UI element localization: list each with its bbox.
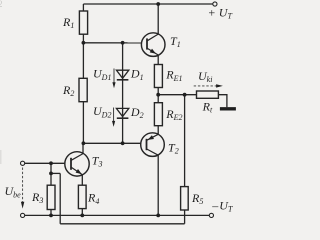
wire feedback bottom run	[60, 223, 184, 225]
svg-text:UT: UT	[219, 6, 233, 21]
svg-text:+: +	[208, 6, 216, 20]
svg-text:Rt: Rt	[202, 99, 213, 114]
svg-text:R1: R1	[62, 15, 74, 30]
wire T3 emitter through R4 to bottom rail	[81, 175, 83, 216]
svg-text:T1: T1	[170, 34, 181, 49]
wire output node to Rt	[158, 94, 196, 96]
transistor T3 (NPN)	[65, 152, 89, 176]
svg-text:T3: T3	[92, 153, 103, 168]
svg-text:R3: R3	[31, 190, 43, 205]
svg-text:UT: UT	[219, 198, 233, 213]
svg-text:D2: D2	[130, 105, 144, 120]
resistor R4	[78, 185, 86, 208]
junction feedback tap	[49, 172, 53, 176]
resistor R1	[79, 11, 87, 34]
svg-text:–: –	[211, 198, 219, 212]
junction R5 top / output wire	[183, 93, 187, 97]
junction R3 bottom rail	[49, 214, 53, 218]
wire input to T3 base	[25, 162, 65, 164]
resistor RE1	[154, 65, 162, 88]
junction T2 collector rail	[156, 214, 160, 218]
svg-text:Ube: Ube	[5, 184, 22, 199]
transistor T1 (NPN)	[141, 33, 165, 57]
svg-text:D1: D1	[130, 67, 144, 82]
ground symbol	[220, 107, 236, 110]
svg-text:UD1: UD1	[93, 67, 111, 82]
resistor Rt (load, horizontal)	[197, 91, 219, 98]
arrow U_D2 (down)	[112, 108, 115, 127]
junction diode bottom	[121, 141, 125, 145]
junction input / R3 top	[49, 161, 53, 165]
junction T1 collector / top rail	[156, 2, 160, 6]
wire Rt right lead to ground	[218, 95, 227, 108]
wire bottom rail -UT	[25, 214, 210, 216]
arrow U_ki (dashed, right)	[194, 84, 223, 87]
diode D1	[116, 70, 128, 80]
wire T1 collector to top rail	[157, 4, 159, 34]
wire T2 collector to bottom rail	[157, 155, 159, 215]
terminal input bottom	[21, 213, 25, 217]
svg-text:R2: R2	[62, 83, 74, 98]
wire node A to T1 base	[83, 42, 141, 44]
junction node B left	[82, 141, 86, 145]
wire R3 column	[50, 163, 52, 215]
svg-text:R4: R4	[87, 191, 99, 206]
svg-text:UD2: UD2	[93, 104, 111, 119]
wire node B to T2 base	[83, 142, 140, 144]
wire T3 collector to node B	[82, 143, 84, 153]
terminal +UT	[213, 2, 217, 6]
terminal -UT	[209, 213, 213, 217]
resistor RE2	[154, 103, 162, 126]
wire top rail +UT	[83, 3, 212, 5]
junction node A (R1/R2/T1 base)	[82, 41, 86, 45]
wire R1-R2 column (node A to node B)	[82, 4, 84, 143]
arrow U_be (dashed, down)	[21, 168, 24, 209]
wire diode chain column	[122, 43, 124, 144]
resistor R5	[181, 187, 189, 210]
wire R5 column from output node down to feedback line	[184, 95, 186, 224]
faint page-edge artifact left	[0, 150, 2, 164]
junction output node	[156, 93, 160, 97]
wire T1 emitter through RE1, output node, RE2 to T2 emitter	[157, 55, 159, 134]
resistor R3	[47, 185, 55, 209]
junction R4 bottom rail	[80, 214, 84, 218]
transistor T2 (PNP)	[141, 133, 165, 157]
junction diode top	[121, 41, 125, 45]
wire feedback tap to R3 column	[51, 172, 60, 174]
svg-text:R5: R5	[191, 191, 203, 206]
svg-text:2: 2	[0, 0, 3, 9]
diode D2	[116, 108, 128, 118]
terminal input top	[21, 161, 25, 165]
svg-text:RE1: RE1	[165, 68, 182, 83]
resistor R2	[79, 78, 87, 101]
svg-text:RE2: RE2	[165, 107, 182, 122]
svg-text:Uki: Uki	[198, 69, 212, 84]
wire feedback vertical	[59, 173, 61, 223]
svg-text:T2: T2	[168, 140, 179, 155]
arrow U_D1 (down)	[112, 69, 115, 89]
